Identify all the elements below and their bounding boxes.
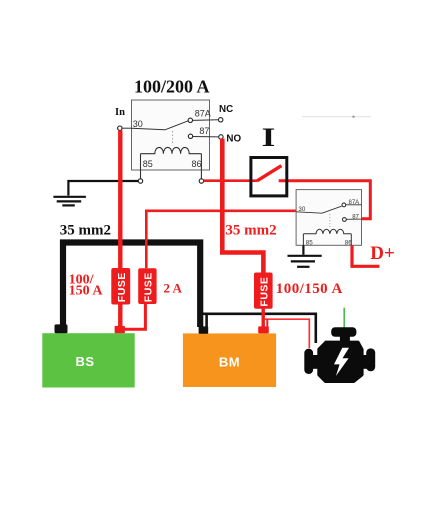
svg-text:85: 85 bbox=[143, 159, 153, 169]
faint construction line bbox=[302, 116, 371, 118]
ground GND1 bbox=[53, 197, 86, 206]
relay K1 actuator dotted link bbox=[172, 131, 174, 146]
relay K1 coil bbox=[141, 147, 202, 153]
wire 85 to ground bbox=[68, 181, 138, 196]
battery BM bbox=[183, 333, 276, 387]
svg-text:35 mm2: 35 mm2 bbox=[225, 223, 276, 239]
wire BM positive to engine bbox=[264, 319, 309, 348]
terminal NO bbox=[219, 135, 223, 139]
wire terminal 86 to switch bbox=[204, 179, 258, 182]
coil lead 86 bbox=[200, 154, 202, 179]
svg-text:86: 86 bbox=[192, 159, 202, 169]
wire fuse F3 to BM positive bbox=[262, 307, 265, 328]
switch S1 body bbox=[251, 158, 287, 196]
contact 87 bbox=[188, 134, 192, 138]
coil lead 86 bbox=[350, 234, 352, 246]
wire NO to fuse F3 (red battery cable) bbox=[222, 139, 263, 274]
terminal 85 bbox=[138, 179, 142, 183]
terminal 86 bbox=[199, 179, 203, 183]
wire 87 stub bbox=[346, 218, 361, 220]
terminal BS negative bbox=[55, 324, 68, 333]
wire BM negative to engine bbox=[202, 314, 316, 343]
wire relay K2 85 to ground bbox=[302, 245, 304, 255]
svg-text:86: 86 bbox=[345, 239, 352, 246]
engine lightning bolt bbox=[334, 348, 349, 376]
relay K1 body bbox=[132, 100, 210, 170]
relay K2 actuator dotted link bbox=[329, 214, 331, 227]
svg-text:NO: NO bbox=[226, 133, 241, 144]
svg-text:FUSE: FUSE bbox=[259, 277, 271, 307]
wire fuse F2 to BS positive bbox=[124, 304, 145, 329]
wire BM positive terminal leg bbox=[266, 319, 268, 327]
svg-text:BS: BS bbox=[75, 354, 94, 369]
coil lead 85 bbox=[302, 234, 304, 246]
svg-text:100/200 A: 100/200 A bbox=[134, 77, 210, 97]
fuse F3 bbox=[254, 273, 273, 309]
svg-text:I: I bbox=[262, 123, 276, 152]
terminal BS positive bbox=[115, 326, 125, 333]
wire switch to relay K2 pin 87 bbox=[279, 181, 371, 219]
svg-text:BM: BM bbox=[219, 355, 240, 370]
contact 87 bbox=[343, 218, 347, 222]
relay K1 armature bbox=[132, 121, 189, 130]
svg-text:In: In bbox=[115, 107, 125, 118]
engine M1 bbox=[304, 327, 375, 383]
svg-text:2 A: 2 A bbox=[164, 281, 183, 296]
svg-text:NC: NC bbox=[219, 104, 233, 115]
svg-text:87A: 87A bbox=[195, 109, 211, 119]
wire fuse F2 to relay K2 pin 30 bbox=[146, 211, 296, 268]
wire 87 to NO bbox=[193, 136, 219, 138]
ground GND2 bbox=[288, 256, 322, 267]
svg-text:FUSE: FUSE bbox=[116, 272, 128, 302]
engine sensor lead (green) bbox=[343, 308, 345, 328]
contact 87A bbox=[188, 118, 192, 122]
relay K2 coil bbox=[303, 229, 351, 234]
wire BM negative terminal leg bbox=[205, 314, 208, 328]
svg-text:100/150 A: 100/150 A bbox=[276, 281, 343, 297]
svg-text:D+: D+ bbox=[370, 243, 395, 264]
svg-text:150 A: 150 A bbox=[69, 284, 104, 299]
svg-text:85: 85 bbox=[306, 239, 313, 246]
svg-text:87: 87 bbox=[199, 126, 209, 136]
wire relay K2 86 to D+ bbox=[352, 245, 379, 266]
wire 87A to NC bbox=[193, 119, 219, 122]
terminal BM positive bbox=[258, 326, 269, 333]
wire 35mm2 black battery link bbox=[63, 243, 200, 328]
terminal NC bbox=[219, 118, 223, 122]
coil lead 85 bbox=[140, 154, 142, 179]
relay K2 body bbox=[296, 190, 361, 246]
switch S1 blade bbox=[257, 166, 281, 181]
fuse F2 bbox=[138, 268, 156, 304]
battery BS bbox=[42, 333, 134, 387]
svg-text:35 mm2: 35 mm2 bbox=[60, 222, 111, 238]
wire In to relay bbox=[122, 127, 132, 129]
fuse F1 bbox=[111, 268, 130, 305]
svg-text:30: 30 bbox=[133, 119, 143, 129]
contact 87A bbox=[342, 203, 346, 207]
terminal In bbox=[118, 126, 122, 130]
wire 87A stub bbox=[346, 204, 362, 206]
terminal BM negative bbox=[199, 326, 209, 333]
relay K2 armature bbox=[296, 206, 342, 213]
wire In down to fuse F1 (red battery cable) bbox=[118, 130, 122, 328]
svg-text:FUSE: FUSE bbox=[143, 272, 155, 302]
